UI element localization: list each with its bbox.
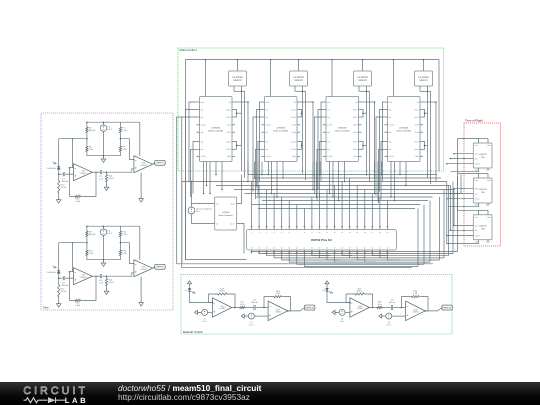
svg-text:GPIO 33: GPIO 33 — [306, 307, 315, 310]
svg-text:Time-of-Flight: Time-of-Flight — [465, 119, 483, 123]
svg-text:1 µF: 1 µF — [99, 282, 104, 285]
resistor R14 470 — [105, 172, 114, 184]
ground vive1 mid — [101, 156, 106, 163]
wire servo M2 gnd drop — [295, 91, 303, 173]
wire U1 vs drop — [235, 101, 249, 174]
wire left rail 3 — [177, 117, 433, 264]
svg-text:10 kΩ: 10 kΩ — [61, 290, 67, 293]
svg-text:IN4: IN4 — [201, 148, 204, 151]
node left beacon2 a — [332, 310, 337, 314]
svg-text:680 kΩ: 680 kΩ — [89, 233, 96, 236]
wire U2 vs drop — [300, 101, 314, 176]
wire U3 in3/in4 left — [317, 142, 323, 202]
wire battery to buck — [192, 204, 215, 224]
resistor R8 1k — [119, 145, 127, 154]
wire servo M4 pins — [420, 86, 428, 92]
svg-text:IN+: IN+ — [216, 202, 219, 205]
motor controller U4 L293DNE — [388, 97, 421, 162]
wire bus h1 — [248, 174, 437, 176]
wire minus input oa4 — [120, 243, 133, 264]
svg-text:2.5 V: 2.5 V — [249, 324, 254, 327]
wire plus input oa2 — [132, 169, 134, 172]
svg-text:IN1: IN1 — [266, 108, 269, 111]
svg-text:680 pF: 680 pF — [62, 284, 69, 287]
wire U1 in3/in4 left — [191, 142, 197, 198]
svg-text:OUT1: OUT1 — [291, 108, 296, 111]
svg-text:IN2: IN2 — [201, 116, 204, 119]
svg-text:1 kΩ: 1 kΩ — [122, 252, 127, 255]
wire PD to cap vive2 — [58, 273, 63, 281]
wire bus h6 — [245, 193, 462, 195]
op-amp OA2 TL081C — [134, 156, 153, 173]
wire left rail battery — [191, 181, 193, 204]
U2 right pins — [291, 101, 300, 158]
capacitor C9 680nF — [389, 299, 396, 311]
resistor R5 680k — [86, 126, 96, 135]
TOF1 bottom pin wires — [450, 168, 488, 172]
wire mid-right tap vive2 — [120, 238, 122, 249]
svg-text:IN1: IN1 — [389, 108, 392, 111]
wire oa8 plus in — [392, 315, 406, 317]
U1 left pins — [196, 101, 206, 158]
wire VS rail drop unit2 — [270, 59, 300, 97]
svg-text:Motor Controller: Motor Controller — [396, 129, 411, 132]
svg-text:OUT2: OUT2 — [291, 116, 296, 119]
svg-text:1,2 EN: 1,2 EN — [201, 124, 207, 127]
svg-text:TL081C: TL081C — [412, 311, 419, 314]
wire U1 out1/out2 bracket — [235, 110, 242, 118]
wire bus h10 — [258, 208, 415, 210]
op-amp OA4 TL081C — [134, 260, 153, 277]
wire left rail 2 — [182, 182, 412, 268]
wire VS rail drop unit3 — [331, 59, 363, 97]
wire bus vertical stubs — [203, 162, 407, 202]
wire bus h3 — [182, 181, 447, 183]
svg-text:OUT2: OUT2 — [226, 116, 231, 119]
svg-text:3,4 EN: 3,4 EN — [389, 155, 395, 158]
wire oa5 out — [235, 307, 238, 309]
motor controller U2 L293DNE — [265, 97, 298, 162]
logo resistor zigzag + diode symbol — [24, 397, 66, 403]
output flag vive2 — [153, 264, 166, 269]
node arrow beacon2 — [325, 281, 329, 289]
wire servo M2 pins — [295, 86, 303, 92]
svg-text:SERVO: SERVO — [419, 79, 427, 82]
resistor R17 10k — [58, 281, 67, 300]
wire after cap vive1 — [102, 171, 131, 173]
svg-text:SERVO: SERVO — [233, 79, 241, 82]
svg-text:3,4 EN: 3,4 EN — [327, 155, 333, 158]
svg-text:IN2: IN2 — [266, 116, 269, 119]
wire feedback vive1 — [70, 168, 97, 197]
servo M1 LS-0009S — [229, 71, 247, 86]
ground vive2 mid — [101, 260, 106, 267]
wire servo M4 gnd drop — [420, 91, 428, 178]
U1 right pins — [226, 101, 235, 158]
wire kit bottom loop 8 — [304, 209, 418, 267]
wire PD to cap vive1 — [58, 169, 63, 177]
servo M4 LS-0009S — [415, 71, 433, 86]
battery V9 20V — [188, 207, 212, 214]
svg-text:1 kΩ: 1 kΩ — [89, 252, 94, 255]
wire kit bottom loop 6 — [289, 201, 430, 263]
resistor R20 1k feedback — [410, 290, 422, 298]
node left beacon2 b — [379, 314, 384, 318]
svg-text:680 pF: 680 pF — [62, 180, 69, 183]
resistor R7 1k — [119, 126, 127, 135]
svg-text:IN4: IN4 — [266, 148, 269, 151]
wire oa7 minus riser — [264, 297, 272, 308]
wire kit bottom loop 5 — [282, 197, 440, 260]
op-amp OA8 TL081C — [406, 301, 426, 321]
node left beacon1 b — [241, 314, 246, 318]
resistor R9 680k — [86, 230, 96, 239]
svg-text:10 kΩ: 10 kΩ — [61, 186, 67, 189]
svg-text:SERVO: SERVO — [294, 79, 302, 82]
svg-text:IN4: IN4 — [389, 148, 392, 151]
wire src2 left beacon1 — [244, 315, 248, 317]
svg-text:TL081C: TL081C — [140, 164, 147, 167]
svg-text:GPIO 34: GPIO 34 — [443, 307, 452, 310]
CircuitLab logo — [0, 382, 110, 405]
capacitor C4 1uF — [99, 274, 104, 284]
svg-text:PD/BPW34: PD/BPW34 — [47, 167, 56, 170]
svg-text:IN1: IN1 — [201, 108, 204, 111]
wire minus input oa2 — [120, 139, 133, 160]
subcircuit box Vive (blue dashed) — [41, 113, 173, 310]
wire U2 out1/out2 bracket — [300, 110, 303, 118]
svg-text:GPIO 4: GPIO 4 — [156, 162, 164, 165]
wire U2 pin wires left — [253, 102, 261, 192]
U3 left pins — [323, 101, 333, 158]
svg-text:680 kΩ: 680 kΩ — [89, 129, 96, 132]
wire bottom rail vive1 — [87, 153, 121, 156]
wire PD branch vive1 — [58, 139, 60, 167]
U4 right pins — [414, 101, 423, 158]
motor controller U3 L293DNE — [326, 97, 359, 162]
wire kit bottom loop 7 — [297, 205, 424, 265]
svg-text:1 kΩ: 1 kΩ — [122, 233, 127, 236]
wire kit bottom loop 2 — [259, 182, 453, 254]
svg-text:1 kΩ: 1 kΩ — [122, 148, 127, 151]
op-amp OA6 TL081C — [350, 298, 369, 317]
wire VS rail drop unit1 — [205, 59, 239, 97]
resistor R6 1k — [86, 145, 94, 154]
wire U3 right drop 2 — [367, 91, 370, 182]
svg-text:OUT−: OUT− — [230, 222, 235, 225]
capacitor C1 680pF — [62, 172, 74, 183]
wire feedback beacon1 — [209, 294, 236, 308]
resistor R18 1k feedback — [272, 290, 284, 298]
wire r to c beacon2 — [384, 307, 391, 309]
source V7 2.5V — [248, 313, 254, 326]
svg-text:2.5 V: 2.5 V — [340, 320, 345, 323]
svg-text:L293DNE: L293DNE — [399, 126, 409, 129]
svg-text:L293DNE: L293DNE — [276, 126, 286, 129]
svg-text:IN2: IN2 — [327, 116, 330, 119]
svg-text:OUT1: OUT1 — [353, 108, 358, 111]
credit text — [118, 384, 261, 401]
resistor R13 10k — [58, 177, 67, 196]
svg-text:IN4: IN4 — [327, 148, 330, 151]
svg-text:TL081C: TL081C — [357, 307, 364, 310]
wire mid-right tap vive1 — [120, 134, 122, 145]
svg-text:OUT4: OUT4 — [291, 148, 296, 151]
wire plus in beacon2 — [345, 311, 350, 313]
wire c to oa7 beacon1 — [256, 307, 268, 309]
svg-text:OUT4: OUT4 — [226, 148, 231, 151]
wire out chain vive1 — [96, 171, 100, 173]
svg-text:680 Ω: 680 Ω — [357, 290, 363, 293]
wire mid-left tap vive2 — [59, 238, 88, 249]
buck converter LM2596 — [215, 197, 237, 230]
resistor R18 680 — [353, 287, 367, 295]
subcircuit box Motor Control (green dashed) — [178, 48, 444, 171]
svg-text:10 Ω: 10 Ω — [378, 303, 383, 306]
photodiode PD1 — [47, 162, 60, 170]
wire bus h5 — [234, 189, 454, 191]
wire U4 pin wires left — [376, 102, 384, 196]
ground opamp2 vive1 — [139, 173, 144, 202]
svg-text:IN−: IN− — [216, 222, 219, 225]
wire TOF bus v1 — [446, 182, 448, 244]
output flag beacon1 — [288, 305, 315, 311]
TOF3 bottom pin wires — [446, 240, 488, 244]
resistor R15 470 — [105, 276, 114, 288]
wire U3 out3/out4 bracket — [362, 142, 367, 150]
node left beacon1 a — [195, 310, 200, 314]
svg-text:IN3: IN3 — [266, 140, 269, 143]
svg-text:PD/BPW34: PD/BPW34 — [47, 271, 56, 274]
wire oa7 plus in — [254, 315, 268, 317]
wire top rail vive1 — [86, 121, 140, 125]
motor controller U1 L293DNE — [200, 97, 233, 162]
svg-text:IN1: IN1 — [327, 108, 330, 111]
wire after cap vive2 — [102, 275, 131, 277]
svg-text:Motor Control: Motor Control — [180, 48, 197, 52]
ground opamp2 vive2 — [139, 277, 144, 306]
wire VS rail — [185, 60, 439, 171]
svg-text:TL081C: TL081C — [80, 276, 87, 279]
wire U4 vs drop — [423, 101, 437, 181]
svg-text:Motor Controller: Motor Controller — [335, 129, 350, 132]
capacitor C2 680pF — [62, 276, 74, 287]
svg-text:IN3: IN3 — [389, 140, 392, 143]
wire out chain vive2 — [96, 275, 100, 277]
op-amp OA1 TL081C — [74, 164, 93, 181]
wire U2 right drop 2 — [303, 91, 306, 180]
footer bar — [0, 382, 540, 405]
wire servo M3 pins — [359, 86, 367, 92]
TOF sensor VL53L0X #1 — [473, 143, 492, 172]
TOF3 left pin wires — [446, 225, 473, 237]
wire src left beacon2 — [335, 311, 339, 313]
wire U1 pin wires left — [182, 102, 197, 263]
svg-text:680 nF: 680 nF — [389, 301, 396, 304]
resistor R17 10 — [238, 301, 246, 309]
wire bus h4 — [216, 185, 450, 187]
svg-text:LAB: LAB — [65, 396, 88, 405]
svg-text:SERVO: SERVO — [358, 79, 366, 82]
capacitor C3 1uF — [99, 170, 104, 180]
svg-text:IN3: IN3 — [201, 140, 204, 143]
ground PD vive1 — [56, 197, 61, 204]
wire U4 out1/out2 bracket — [423, 110, 428, 118]
wire src left beacon1 — [198, 311, 202, 313]
wire feedback beacon2 — [346, 294, 373, 308]
wire U3 out1/out2 bracket — [362, 110, 367, 118]
svg-text:1,2 EN: 1,2 EN — [327, 124, 333, 127]
wire oa8 minus riser — [402, 297, 410, 308]
wire kit bottom loop 4 — [274, 190, 444, 258]
wire plus input oa4 — [132, 273, 134, 276]
svg-text:470 Ω: 470 Ω — [109, 177, 115, 180]
svg-text:TL081C: TL081C — [80, 172, 87, 175]
wire left rail 1 — [185, 110, 246, 260]
source V6 2.5V — [339, 309, 345, 322]
wire bus h9 — [252, 204, 421, 206]
svg-text:Buck Converter: Buck Converter — [219, 214, 233, 217]
svg-text:VL53L0X: VL53L0X — [479, 153, 488, 156]
LED D2 — [322, 288, 332, 293]
svg-text:OUT3: OUT3 — [353, 140, 358, 143]
wire oa6 out — [373, 307, 376, 309]
svg-text:1 kΩ: 1 kΩ — [276, 292, 281, 295]
svg-text:OUT3: OUT3 — [226, 140, 231, 143]
wire U4 in3/in4 left — [379, 142, 385, 204]
svg-text:1 kΩ: 1 kΩ — [122, 129, 127, 132]
svg-text:OUT2: OUT2 — [353, 116, 358, 119]
svg-text:1 MΩ: 1 MΩ — [75, 200, 80, 203]
wire oa4 supply — [139, 226, 141, 260]
resistor R14 1M feedback — [74, 195, 82, 203]
svg-text:GPIO 6: GPIO 6 — [156, 266, 164, 269]
svg-text:IN2: IN2 — [389, 116, 392, 119]
svg-text:3,4 EN: 3,4 EN — [201, 155, 207, 158]
svg-text:OUT3: OUT3 — [291, 140, 296, 143]
wire VS rail drop unit4 — [393, 59, 425, 97]
resistor R19 10 — [376, 301, 384, 309]
voltage source V2 6.8V — [100, 229, 113, 260]
svg-text:OUT1: OUT1 — [414, 108, 419, 111]
label Vive — [43, 306, 49, 310]
svg-text:10 Ω: 10 Ω — [240, 303, 245, 306]
op-amp OA5 TL081C — [212, 298, 231, 317]
TOF1 left pin wires — [446, 153, 473, 165]
svg-text:Beacon Circuit: Beacon Circuit — [183, 330, 203, 334]
wire bus h8 — [262, 200, 428, 202]
wire oa8 feedback — [421, 297, 428, 312]
ESP32 kit top pins — [251, 227, 389, 234]
wire U1 out3/out4 bracket — [235, 142, 242, 150]
wire r to c beacon1 — [246, 307, 253, 309]
wire feedback vive2 — [70, 272, 97, 301]
ground divider vive2 — [104, 288, 109, 295]
svg-text:2.5 V: 2.5 V — [387, 324, 392, 327]
svg-text:IN3: IN3 — [327, 140, 330, 143]
svg-text:Vive: Vive — [43, 306, 49, 310]
wire bus h2 — [255, 177, 442, 179]
svg-text:OUT4: OUT4 — [353, 148, 358, 151]
svg-text:3,4 EN: 3,4 EN — [266, 155, 272, 158]
wire c to oa8 beacon2 — [393, 307, 405, 309]
wire TOF bus v4 — [457, 139, 459, 211]
TOF3 top pin wires — [458, 210, 489, 215]
wire TOF bus v5 — [460, 175, 462, 194]
wire kit bottom loop 3 — [267, 186, 449, 256]
TOF2 top pin wires — [458, 174, 489, 179]
wire minus input vive1 — [69, 138, 73, 169]
wire U2 out3/out4 bracket — [300, 142, 303, 150]
wire TOF bus v2 — [449, 186, 451, 231]
wire oa7 feedback — [284, 297, 291, 312]
resistor R18 1M feedback — [74, 299, 82, 307]
voltage source V1 6.8V — [100, 125, 113, 156]
svg-text:ESP32 Pins Kit: ESP32 Pins Kit — [311, 238, 332, 242]
wire U3 pin wires left — [315, 102, 323, 194]
U3 right pins — [353, 101, 362, 158]
wire oa2 supply — [139, 122, 141, 156]
wire plus in beacon1 — [208, 311, 213, 313]
label Motor Control — [180, 48, 197, 52]
ESP32 Pins Kit — [247, 230, 397, 251]
TOF sensor VL53L0X #3 — [473, 215, 492, 244]
resistor R10 1k — [86, 249, 94, 258]
wire mid-left tap vive1 — [59, 134, 88, 145]
svg-text:LM2596: LM2596 — [222, 211, 230, 214]
U2 left pins — [261, 101, 271, 158]
LED D1 — [185, 288, 195, 293]
svg-text:1 kΩ: 1 kΩ — [89, 148, 94, 151]
wire U2 in3/in4 left — [256, 142, 262, 200]
source V8 2.5V — [386, 313, 392, 326]
wire servo M3 gnd drop — [359, 91, 367, 176]
wire kit top pin drops — [252, 178, 388, 227]
wire U4 right drop 2 — [428, 91, 431, 184]
svg-text:Motor Controller: Motor Controller — [273, 129, 288, 132]
svg-text:1,2 EN: 1,2 EN — [266, 124, 272, 127]
svg-text:TL081C: TL081C — [140, 268, 147, 271]
ground divider vive1 — [104, 184, 109, 191]
source V5 2.5V — [202, 309, 208, 322]
svg-text:1 kΩ: 1 kΩ — [413, 292, 418, 295]
wire servo M1 pins — [234, 86, 242, 92]
servo M3 LS-0009S — [354, 71, 372, 86]
svg-text:L293DNE: L293DNE — [338, 126, 348, 129]
svg-text:VL53L0X: VL53L0X — [479, 188, 488, 191]
op-amp OA3 TL081C — [74, 268, 93, 285]
wire PD branch vive2 — [58, 243, 60, 271]
node arrow beacon1 — [187, 281, 191, 289]
op-amp OA7 TL081C — [268, 301, 288, 321]
TOF1 top pin wires — [458, 139, 489, 144]
svg-text:D1: D1 — [185, 289, 187, 292]
U4 left pins — [384, 101, 394, 158]
wire servo M1 gnd drop — [234, 91, 242, 171]
svg-text:680 nF: 680 nF — [251, 301, 258, 304]
svg-text:OUT1: OUT1 — [226, 108, 231, 111]
svg-text:OUT4: OUT4 — [414, 148, 419, 151]
wire kit bottom pin hooks — [312, 253, 400, 262]
output flag vive1 — [153, 160, 166, 165]
wire U3 vs drop — [362, 101, 376, 179]
subcircuit box Beacon Circuit (green dashed) — [181, 275, 452, 335]
ground PD vive2 — [56, 301, 61, 308]
ESP32 kit bottom pins — [251, 247, 389, 253]
svg-text:470 Ω: 470 Ω — [109, 281, 115, 284]
wire top rail vive2 — [86, 225, 140, 229]
TOF2 bottom pin wires — [448, 203, 488, 207]
